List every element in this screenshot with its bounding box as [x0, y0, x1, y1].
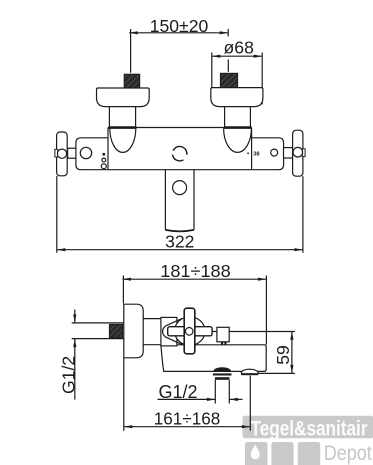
watermark square 3	[298, 442, 320, 465]
svg-text:322: 322	[165, 232, 194, 252]
body divider right	[251, 128, 253, 170]
hub circle	[185, 328, 193, 336]
dim ø68 right extension line	[261, 53, 263, 105]
knob leader	[212, 331, 217, 333]
indicator dot 2	[102, 158, 106, 162]
dim 322 line	[57, 249, 303, 251]
G1/2 mid right arrow	[229, 398, 242, 400]
thick joint left	[109, 126, 137, 129]
right end cap rect	[302, 149, 305, 157]
indicator dot 1	[102, 153, 105, 156]
left outlet pipe	[214, 380, 216, 404]
left connector	[68, 148, 76, 158]
svg-text:150±20: 150±20	[150, 16, 209, 36]
59 top reference line	[229, 331, 295, 333]
body right cap	[252, 138, 284, 170]
dim ø68 right arrow	[254, 55, 263, 58]
svg-text:G1/2: G1/2	[159, 382, 198, 402]
right section circle	[271, 149, 278, 156]
indicator dot 3	[101, 164, 106, 169]
watermark square 1	[245, 442, 268, 465]
dim 181 left extension	[122, 276, 124, 304]
right union nut circle	[293, 147, 303, 157]
svg-text:Depot: Depot	[324, 441, 372, 465]
left end cap rect	[55, 149, 58, 157]
wall flange (side)	[124, 304, 143, 358]
dim 59 line	[291, 331, 293, 373]
body divider left	[107, 128, 109, 170]
dim 161÷168 left extension	[123, 358, 125, 431]
svg-text:Tegel&sanitair: Tegel&sanitair	[251, 415, 368, 440]
left outlet band 2	[215, 377, 229, 380]
body left cap	[76, 138, 108, 170]
watermark band	[243, 415, 373, 465]
valve housing	[161, 317, 177, 346]
left outlet dome (filled)	[214, 368, 231, 372]
right outlet base bar	[241, 373, 258, 375]
right outlet dome	[241, 369, 258, 373]
dim 181 left arrow	[123, 278, 132, 281]
wall pipe bottom	[72, 338, 124, 340]
dim 150 left arrow	[129, 31, 138, 34]
horizontal spoke	[168, 327, 212, 336]
G1/2 up arrow and leader	[74, 339, 76, 400]
handle disc	[175, 317, 205, 346]
59 bottom reference line	[241, 372, 295, 374]
handle skirt arc	[163, 318, 183, 344]
left wall anchor (hatched)	[124, 74, 140, 88]
thick joint right	[224, 126, 252, 129]
right neck	[224, 107, 226, 128]
dimension ø68 line	[212, 55, 262, 57]
dim 181÷188 line	[123, 278, 267, 280]
left wall flange	[57, 132, 68, 176]
spout circle	[173, 181, 187, 195]
cartridge arc top	[173, 146, 187, 154]
dim ø68 left extension line	[211, 53, 213, 89]
svg-text:181÷188: 181÷188	[160, 261, 231, 281]
body centre section top edge	[108, 127, 252, 129]
dim 161÷168 right extension	[249, 376, 251, 431]
dim 150 left extension line	[130, 29, 132, 73]
left escutcheon	[97, 88, 150, 107]
neck bottom	[143, 344, 161, 346]
lower body	[161, 345, 266, 372]
neck top	[143, 318, 161, 320]
watermark drop icon	[251, 444, 260, 459]
svg-text:G1/2: G1/2	[59, 356, 79, 394]
spout left edge	[164, 170, 166, 230]
dim 322 left extension	[56, 176, 58, 253]
svg-text:161÷168: 161÷168	[154, 409, 221, 429]
dim 322 left arrow	[57, 248, 66, 251]
dim 150 right extension tick	[227, 29, 229, 37]
left union nut circle	[57, 149, 66, 158]
dim 322 right arrow	[294, 248, 303, 251]
spout bottom arc	[165, 230, 194, 231]
right union dome	[224, 128, 252, 152]
dim 181 right extension	[265, 276, 267, 345]
spout right edge	[193, 170, 195, 230]
dim 181 right arrow	[258, 278, 267, 281]
dim 150 right arrow	[220, 31, 229, 34]
dim 161÷168 line	[124, 426, 251, 428]
knob foot right	[224, 342, 226, 345]
right wall flange	[293, 130, 303, 176]
dimension 150±20 line	[129, 32, 228, 34]
wall hatch block	[109, 324, 122, 338]
dim 150 right extension line lower part	[227, 60, 229, 72]
left neck	[108, 107, 110, 128]
right connector	[284, 148, 293, 158]
svg-text:38: 38	[253, 152, 260, 158]
left union dome	[110, 128, 136, 152]
svg-text:59: 59	[273, 345, 293, 365]
38 dot	[247, 152, 249, 154]
wall pipe top	[72, 322, 124, 324]
cartridge arc bottom	[173, 155, 184, 161]
diverter knob	[217, 327, 229, 342]
right escutcheon	[211, 88, 263, 107]
body bottom edge	[108, 169, 252, 171]
right wall anchor (hatched)	[220, 73, 237, 87]
G1/2 mid underline	[158, 398, 216, 400]
left outlet band 1	[213, 373, 232, 375]
dim ø68 left arrow	[212, 55, 221, 58]
G1/2 down arrow	[74, 310, 76, 323]
vertical spoke	[184, 308, 195, 354]
svg-text:ø68: ø68	[224, 38, 255, 58]
dim 322 right extension	[302, 176, 304, 253]
watermark square 2	[271, 442, 293, 465]
knob foot left	[221, 342, 223, 345]
left section circle	[80, 147, 91, 158]
